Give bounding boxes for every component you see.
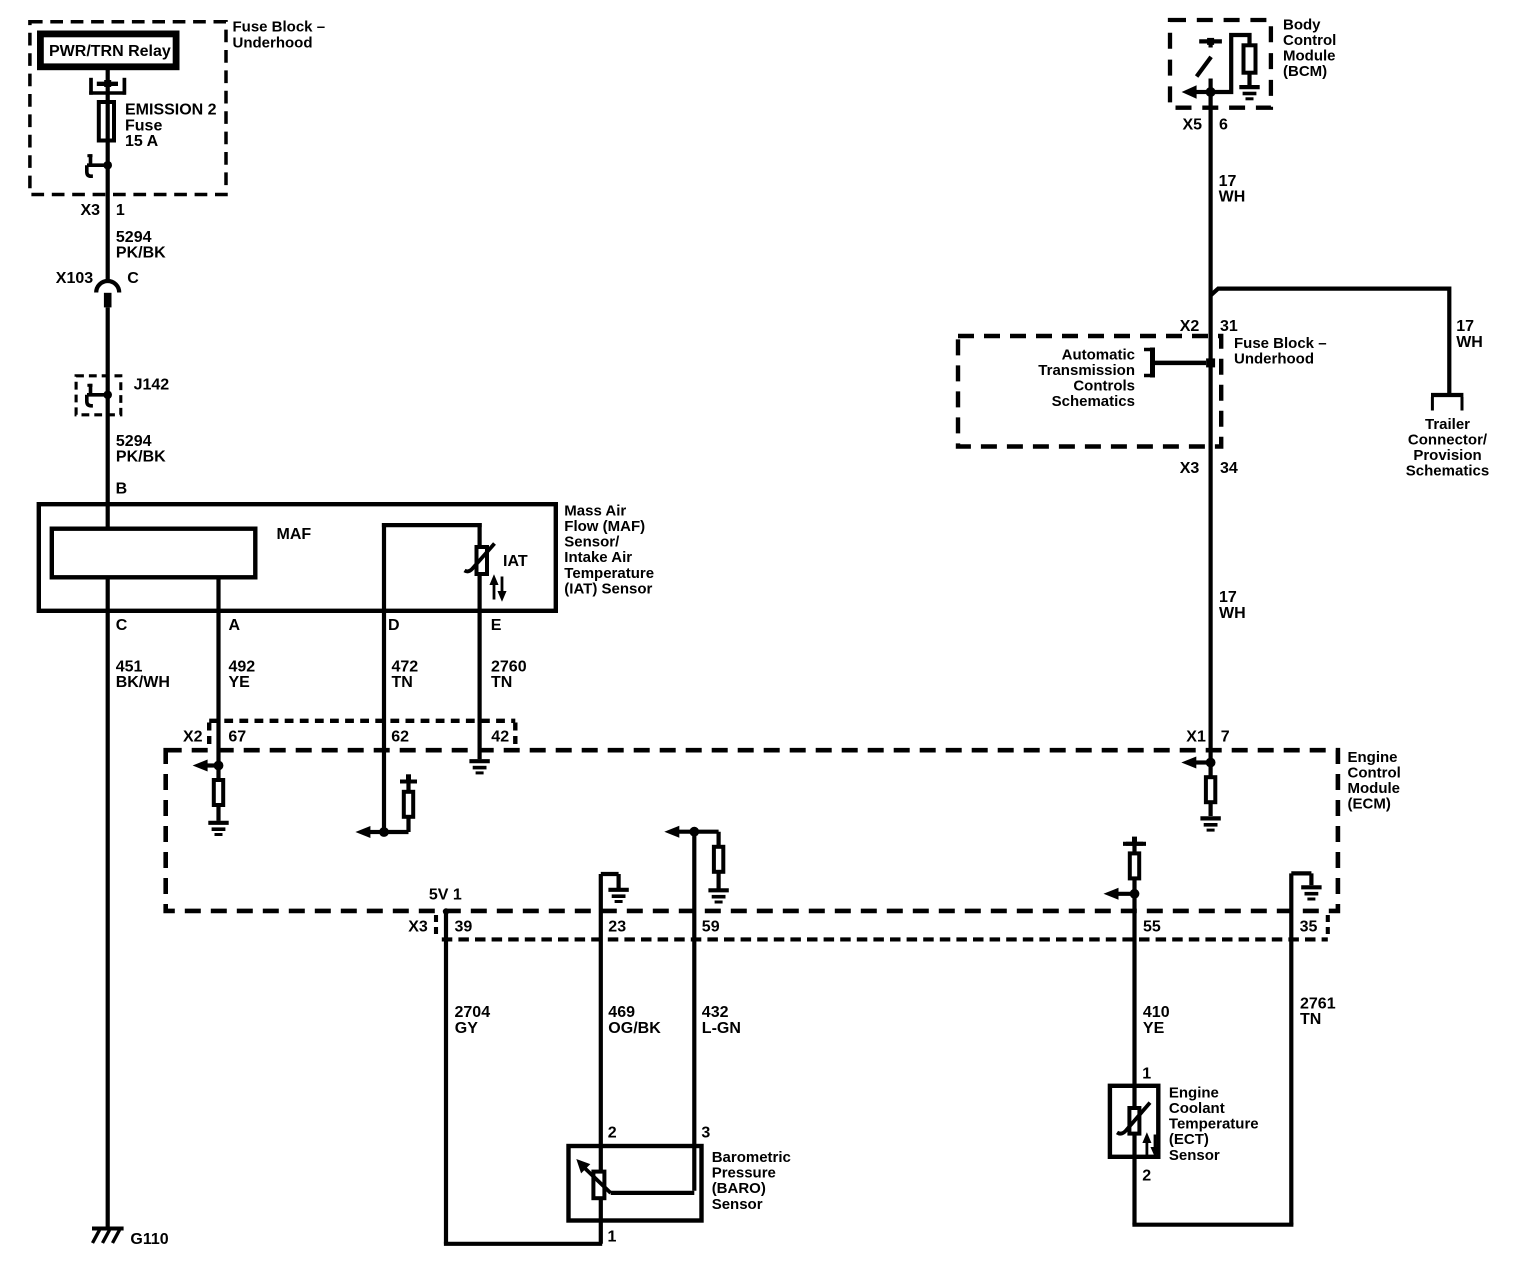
svg-text:MAF: MAF	[277, 526, 312, 543]
svg-text:BK/WH: BK/WH	[116, 674, 170, 691]
svg-text:55: 55	[1143, 919, 1161, 936]
svg-text:G110: G110	[130, 1231, 168, 1248]
svg-text:Schematics: Schematics	[1052, 393, 1135, 410]
svg-text:34: 34	[1220, 460, 1238, 477]
svg-text:B: B	[116, 481, 128, 498]
svg-text:Body: Body	[1283, 16, 1321, 33]
svg-text:Temperature: Temperature	[564, 565, 654, 582]
svg-text:Fuse Block –: Fuse Block –	[233, 19, 326, 36]
svg-text:EMISSION 2: EMISSION 2	[125, 102, 217, 119]
svg-text:17: 17	[1219, 173, 1237, 190]
svg-text:Mass Air: Mass Air	[564, 502, 626, 519]
svg-text:Underhood: Underhood	[1234, 351, 1314, 368]
svg-text:5294: 5294	[116, 433, 152, 450]
svg-text:PWR/TRN Relay: PWR/TRN Relay	[49, 43, 171, 60]
svg-text:432: 432	[702, 1004, 729, 1021]
svg-text:TN: TN	[491, 674, 512, 691]
svg-text:5V 1: 5V 1	[429, 887, 462, 904]
svg-text:Trailer: Trailer	[1425, 416, 1470, 433]
svg-text:15 A: 15 A	[125, 133, 159, 150]
svg-text:OG/BK: OG/BK	[608, 1020, 661, 1037]
svg-text:Fuse: Fuse	[125, 117, 162, 134]
svg-text:39: 39	[455, 919, 473, 936]
svg-text:Coolant: Coolant	[1169, 1100, 1225, 1117]
svg-text:67: 67	[228, 729, 246, 746]
svg-text:PK/BK: PK/BK	[116, 245, 166, 262]
svg-text:D: D	[388, 617, 400, 634]
svg-text:31: 31	[1220, 318, 1238, 335]
svg-text:WH: WH	[1219, 189, 1246, 206]
svg-text:2760: 2760	[491, 658, 527, 675]
svg-text:Automatic: Automatic	[1062, 346, 1135, 363]
svg-text:Underhood: Underhood	[233, 34, 313, 51]
svg-text:2704: 2704	[455, 1004, 491, 1021]
svg-text:X1: X1	[1186, 729, 1206, 746]
svg-text:Temperature: Temperature	[1169, 1116, 1259, 1133]
svg-text:17: 17	[1456, 318, 1474, 335]
svg-text:X3: X3	[81, 202, 101, 219]
svg-text:410: 410	[1143, 1004, 1170, 1021]
svg-text:469: 469	[608, 1004, 635, 1021]
svg-text:42: 42	[491, 729, 509, 746]
svg-text:PK/BK: PK/BK	[116, 449, 166, 466]
svg-text:(ECM): (ECM)	[1348, 796, 1391, 813]
svg-text:1: 1	[116, 202, 125, 219]
svg-text:GY: GY	[455, 1020, 478, 1037]
svg-text:2: 2	[608, 1124, 617, 1141]
svg-text:5294: 5294	[116, 229, 152, 246]
svg-text:Barometric: Barometric	[712, 1149, 791, 1166]
svg-text:Sensor: Sensor	[712, 1196, 763, 1213]
svg-text:Transmission: Transmission	[1038, 362, 1135, 379]
svg-text:X5: X5	[1183, 117, 1203, 134]
svg-text:451: 451	[116, 658, 143, 675]
svg-text:492: 492	[229, 658, 256, 675]
svg-text:Engine: Engine	[1348, 749, 1398, 766]
svg-text:Flow (MAF): Flow (MAF)	[564, 518, 645, 535]
svg-text:L-GN: L-GN	[702, 1020, 741, 1037]
svg-text:(IAT) Sensor: (IAT) Sensor	[564, 580, 652, 597]
svg-text:X103: X103	[56, 270, 93, 287]
svg-text:X3: X3	[1180, 460, 1200, 477]
svg-text:Engine: Engine	[1169, 1084, 1219, 1101]
svg-text:YE: YE	[1143, 1020, 1165, 1037]
svg-text:6: 6	[1219, 117, 1228, 134]
svg-text:Pressure: Pressure	[712, 1165, 776, 1182]
svg-text:7: 7	[1221, 729, 1230, 746]
svg-text:35: 35	[1300, 919, 1318, 936]
svg-text:Intake Air: Intake Air	[564, 549, 632, 566]
svg-text:WH: WH	[1456, 334, 1483, 351]
svg-text:C: C	[116, 617, 128, 634]
svg-text:C: C	[127, 270, 139, 287]
svg-text:TN: TN	[1300, 1011, 1321, 1028]
svg-text:23: 23	[608, 919, 626, 936]
svg-text:X3: X3	[408, 919, 428, 936]
svg-text:Controls: Controls	[1073, 378, 1135, 395]
svg-text:62: 62	[391, 729, 409, 746]
svg-text:17: 17	[1219, 589, 1237, 606]
svg-text:IAT: IAT	[503, 553, 528, 570]
svg-text:WH: WH	[1219, 605, 1246, 622]
svg-text:X2: X2	[183, 729, 203, 746]
svg-text:Module: Module	[1348, 780, 1401, 797]
svg-text:J142: J142	[134, 376, 170, 393]
svg-text:Connector/: Connector/	[1408, 432, 1488, 449]
svg-text:Provision: Provision	[1413, 447, 1481, 464]
svg-text:Sensor: Sensor	[1169, 1147, 1220, 1164]
svg-text:2761: 2761	[1300, 996, 1336, 1013]
svg-text:TN: TN	[392, 674, 413, 691]
svg-text:Fuse Block –: Fuse Block –	[1234, 335, 1327, 352]
svg-text:59: 59	[702, 919, 720, 936]
svg-text:1: 1	[608, 1228, 617, 1245]
svg-text:A: A	[229, 617, 241, 634]
svg-text:472: 472	[392, 658, 419, 675]
svg-text:YE: YE	[229, 674, 251, 691]
svg-text:Schematics: Schematics	[1406, 463, 1489, 480]
svg-text:Module: Module	[1283, 48, 1336, 65]
svg-text:Control: Control	[1283, 32, 1336, 49]
svg-text:1: 1	[1142, 1066, 1151, 1083]
svg-text:X2: X2	[1180, 318, 1200, 335]
svg-text:(BCM): (BCM)	[1283, 63, 1327, 80]
svg-text:(BARO): (BARO)	[712, 1180, 766, 1197]
svg-text:Sensor/: Sensor/	[564, 534, 620, 551]
svg-text:Control: Control	[1348, 765, 1401, 782]
svg-text:2: 2	[1142, 1168, 1151, 1185]
svg-text:3: 3	[701, 1124, 710, 1141]
svg-text:E: E	[491, 617, 502, 634]
svg-text:(ECT): (ECT)	[1169, 1131, 1209, 1148]
